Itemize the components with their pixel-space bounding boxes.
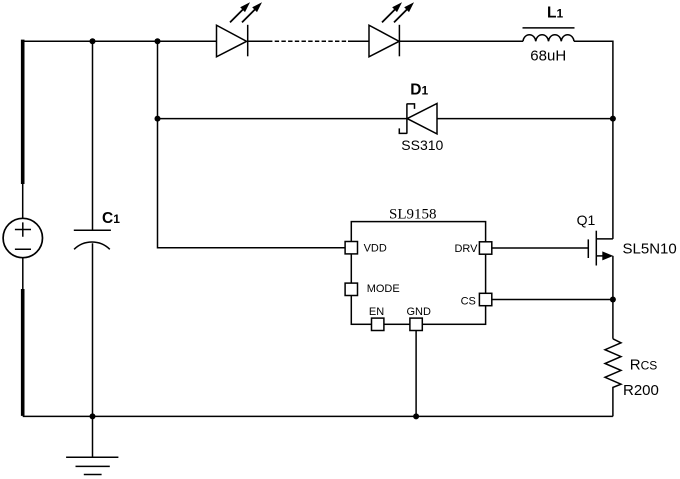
IC U1 SL9158 body xyxy=(351,222,485,325)
pin VDD xyxy=(345,242,357,254)
wire battery bottom lead xyxy=(22,258,24,289)
node top rail / C1 xyxy=(90,38,96,44)
svg-text:Q1: Q1 xyxy=(577,212,596,228)
svg-text:RCS: RCS xyxy=(630,357,658,374)
node top rail / VDD branch xyxy=(155,38,161,44)
svg-text:C1: C1 xyxy=(102,210,120,227)
wire bottom rail xyxy=(23,415,613,417)
svg-text:SL5N10: SL5N10 xyxy=(623,240,677,257)
wire VDD branch vertical lower and to VDD pin xyxy=(158,119,346,248)
transistor Q1 xyxy=(588,231,613,266)
node D1 / right rail xyxy=(610,116,616,122)
wire after LED1 xyxy=(248,40,268,42)
node GND / bottom rail xyxy=(413,413,419,419)
pin DRV xyxy=(479,242,491,254)
node C1 / bottom rail / ground xyxy=(90,413,96,419)
voltage source xyxy=(3,218,42,257)
wire VDD branch vertical upper xyxy=(157,41,159,118)
svg-text:EN: EN xyxy=(369,306,384,318)
inductor L1 xyxy=(523,28,575,41)
wire source rail down xyxy=(612,256,614,339)
svg-text:CS: CS xyxy=(461,296,476,308)
capacitor C1 bottom wire xyxy=(92,243,94,416)
wire L1 to right rail corner, down to D1 node xyxy=(574,41,613,118)
svg-text:GND: GND xyxy=(407,306,432,318)
svg-text:SL9158: SL9158 xyxy=(389,207,437,223)
ground xyxy=(66,416,118,474)
wire D1 cathode row right xyxy=(437,118,613,120)
battery lead thick lower xyxy=(21,289,25,416)
LED 2 (right) xyxy=(369,2,414,57)
resistor RCS xyxy=(605,339,621,417)
LED 1 (left) xyxy=(217,2,263,57)
svg-text:D1: D1 xyxy=(410,82,428,99)
pin EN xyxy=(372,318,384,330)
node CS / source rail xyxy=(610,297,616,303)
svg-text:L1: L1 xyxy=(547,5,563,22)
pin GND xyxy=(410,318,422,330)
wire before LED2 xyxy=(348,40,369,42)
wire GND pin down xyxy=(415,331,417,417)
wire top rail left xyxy=(23,40,217,42)
capacitor C1 xyxy=(74,230,111,249)
svg-text:DRV: DRV xyxy=(454,243,478,255)
wire CS row xyxy=(492,299,613,301)
wire right rail D1 node to Q1 drain xyxy=(612,119,614,239)
pin MODE xyxy=(345,283,357,295)
svg-text:68uH: 68uH xyxy=(530,48,566,65)
diode D1 schottky xyxy=(399,104,437,134)
pin CS xyxy=(479,293,491,305)
svg-text:R200: R200 xyxy=(623,382,659,399)
wire battery top lead xyxy=(22,184,24,218)
capacitor C1 top wire xyxy=(92,41,94,230)
node D1 / VDD branch xyxy=(155,116,161,122)
wire DRV to gate xyxy=(492,247,589,249)
svg-text:SS310: SS310 xyxy=(401,137,443,153)
svg-text:VDD: VDD xyxy=(364,243,387,255)
wire D1 anode row left xyxy=(158,118,407,120)
wire LED2 to L1 xyxy=(399,40,523,42)
battery lead thick upper xyxy=(21,40,25,184)
wire dashed series link xyxy=(268,40,348,42)
svg-text:MODE: MODE xyxy=(367,283,400,295)
